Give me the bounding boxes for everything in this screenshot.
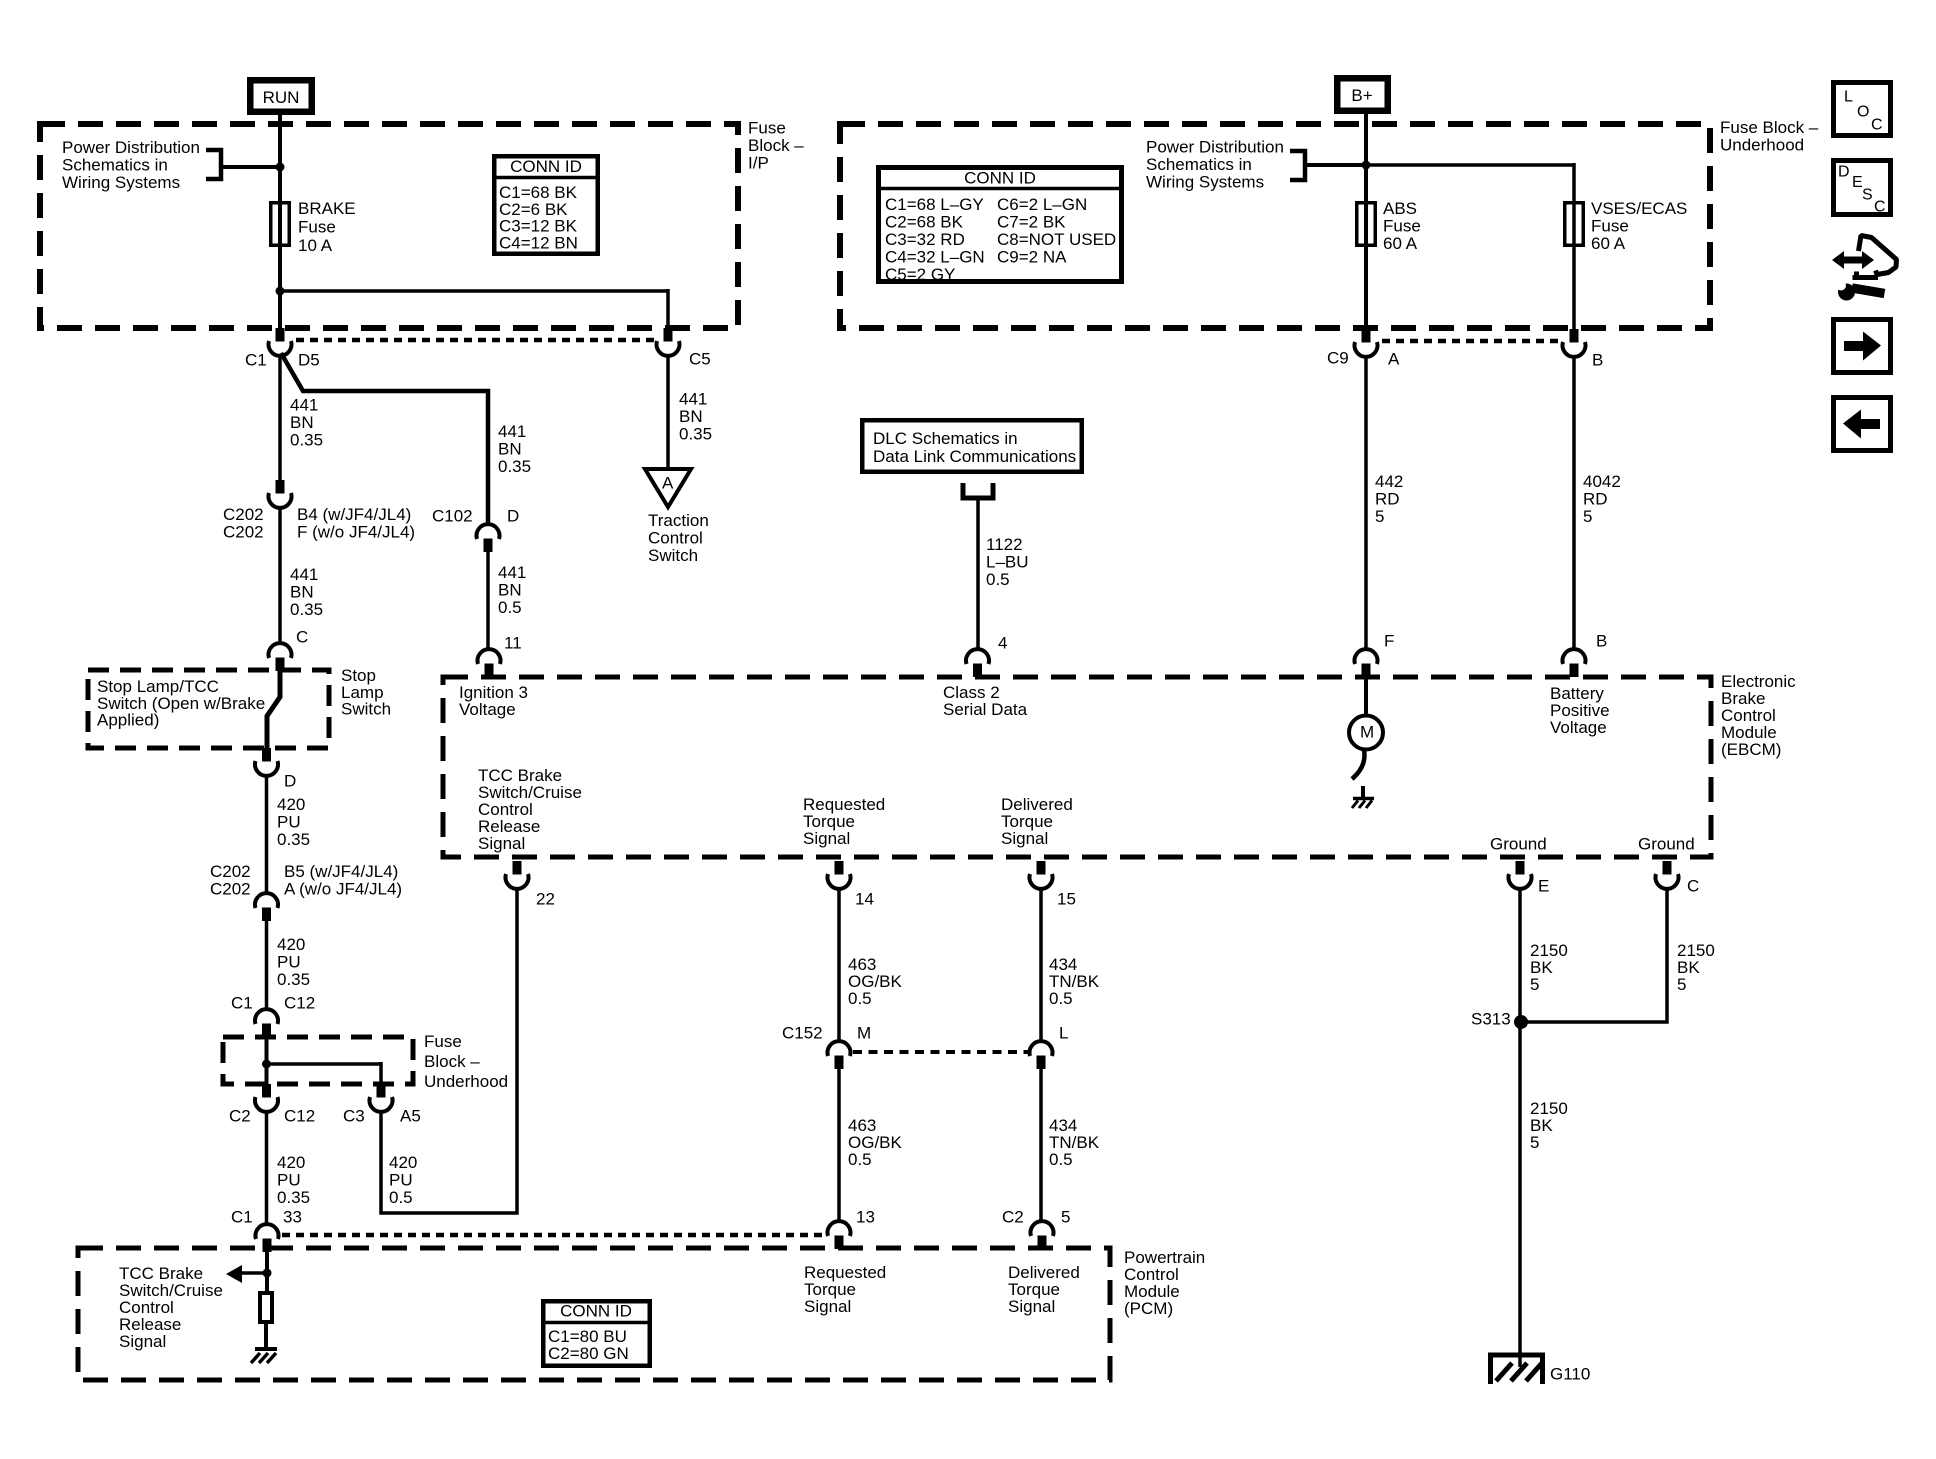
wire D to C202 lower	[265, 775, 269, 893]
svg-text:C7=2 BK: C7=2 BK	[997, 213, 1066, 232]
svg-text:RD: RD	[1583, 490, 1608, 509]
connector C152 M	[835, 1056, 844, 1070]
connector C9 A	[1362, 329, 1371, 343]
svg-text:420: 420	[277, 1153, 305, 1172]
svg-text:CONN ID: CONN ID	[560, 1302, 632, 1321]
icon DESC box	[1834, 161, 1891, 215]
svg-text:441: 441	[498, 563, 526, 582]
connector C202 lower	[262, 908, 271, 922]
power node RUN box	[250, 80, 312, 112]
node junction at B+ feed	[1362, 161, 1371, 170]
svg-text:Ground: Ground	[1638, 835, 1695, 854]
svg-text:0.5: 0.5	[498, 598, 522, 617]
svg-text:D5: D5	[298, 351, 320, 370]
wire C202 lower to C1-C12	[265, 921, 269, 1010]
conn id table (PCM)	[543, 1301, 650, 1366]
wire C to S313 junction	[1520, 888, 1667, 1022]
dashed connector line M to L	[853, 1050, 1028, 1054]
svg-text:33: 33	[283, 1208, 302, 1227]
svg-text:C: C	[296, 628, 308, 647]
svg-text:C9: C9	[1327, 349, 1349, 368]
svg-text:0.35: 0.35	[290, 600, 323, 619]
svg-text:O: O	[1857, 104, 1869, 121]
wire DLC to pin 4	[976, 498, 980, 650]
wire C2-C12 to C1-33	[265, 1111, 269, 1224]
svg-text:442: 442	[1375, 472, 1403, 491]
svg-text:441: 441	[498, 422, 526, 441]
svg-text:C: C	[1874, 199, 1886, 216]
svg-text:PU: PU	[277, 953, 301, 972]
svg-text:0.35: 0.35	[679, 425, 712, 444]
svg-text:A: A	[1388, 350, 1400, 369]
svg-text:441: 441	[290, 396, 318, 415]
connector pin B (EBCM)	[1570, 664, 1579, 678]
connector pin 4	[973, 664, 982, 678]
svg-text:PU: PU	[389, 1171, 413, 1190]
svg-text:C1: C1	[245, 351, 267, 370]
svg-text:RUN: RUN	[263, 88, 300, 107]
svg-text:S313: S313	[1471, 1010, 1511, 1029]
connector C1 33	[263, 1239, 272, 1253]
pump motor switch blade	[1352, 750, 1365, 779]
svg-text:Data Link Communications: Data Link Communications	[873, 447, 1076, 466]
icon back arrow box	[1834, 398, 1891, 451]
connector pin 14	[835, 861, 844, 875]
svg-text:5: 5	[1583, 507, 1592, 526]
connector C2 pin 5	[1038, 1236, 1047, 1250]
svg-text:C202: C202	[210, 862, 251, 881]
svg-text:C4=32 L–GN: C4=32 L–GN	[885, 248, 985, 267]
icon forward arrow box	[1834, 320, 1891, 373]
svg-text:420: 420	[277, 935, 305, 954]
connector pin E	[1516, 861, 1525, 875]
connector C1 D5	[276, 328, 285, 342]
fuse block underhood dashed box	[840, 124, 1710, 328]
node junction at RUN feed	[276, 163, 285, 172]
icon transfer case with wrench	[1832, 251, 1874, 269]
connector C202 upper	[276, 480, 285, 494]
svg-text:Schematics in: Schematics in	[62, 156, 168, 175]
svg-text:ABS: ABS	[1383, 199, 1417, 218]
resistor in PCM	[260, 1293, 272, 1322]
dotted connector line C1 to C5	[296, 338, 654, 343]
arrow wire to TCC label	[240, 1271, 267, 1275]
svg-text:F (w/o JF4/JL4): F (w/o JF4/JL4)	[297, 523, 415, 542]
connector pin F	[1362, 664, 1371, 678]
svg-text:C4=12 BN: C4=12 BN	[499, 233, 578, 252]
svg-text:Voltage: Voltage	[1550, 718, 1607, 737]
wire B+ down through ABS fuse	[1364, 111, 1368, 329]
svg-text:PU: PU	[277, 1171, 301, 1190]
fuse block underhood small dashed box	[223, 1037, 413, 1084]
svg-text:B: B	[1592, 351, 1603, 370]
svg-text:Signal: Signal	[803, 829, 850, 848]
svg-text:Fuse: Fuse	[1383, 217, 1421, 236]
fuse BRAKE 10A symbol	[271, 203, 290, 246]
connector C102 D	[484, 539, 493, 553]
svg-text:0.5: 0.5	[1049, 989, 1073, 1008]
wire A5 down and over to pin 22	[381, 888, 517, 1213]
svg-text:PU: PU	[277, 813, 301, 832]
svg-text:Signal: Signal	[804, 1297, 851, 1316]
wire E to S313	[1518, 888, 1522, 1367]
svg-text:Fuse: Fuse	[298, 218, 336, 237]
svg-text:4: 4	[998, 634, 1007, 653]
svg-text:Schematics in: Schematics in	[1146, 155, 1252, 174]
ground G110 symbol	[1488, 1353, 1545, 1358]
ground symbol in EBCM	[1353, 797, 1374, 801]
svg-text:0.35: 0.35	[277, 1188, 310, 1207]
svg-text:L–BU: L–BU	[986, 553, 1029, 572]
wire branch D5 to C102 diagonal	[281, 353, 488, 524]
svg-text:5: 5	[1375, 507, 1384, 526]
svg-text:Underhood: Underhood	[424, 1072, 508, 1091]
svg-text:E: E	[1538, 877, 1549, 896]
svg-text:Wiring Systems: Wiring Systems	[62, 173, 180, 192]
svg-text:I/P: I/P	[748, 154, 769, 173]
svg-text:DLC Schematics in: DLC Schematics in	[873, 429, 1018, 448]
svg-text:BN: BN	[498, 440, 522, 459]
wire F to pump motor	[1364, 677, 1368, 717]
svg-text:0.5: 0.5	[389, 1188, 413, 1207]
svg-text:C: C	[1871, 117, 1883, 134]
svg-text:Signal: Signal	[1008, 1297, 1055, 1316]
arrowhead TCC	[226, 1265, 242, 1283]
svg-text:5: 5	[1530, 1133, 1539, 1152]
svg-text:14: 14	[855, 890, 874, 909]
svg-text:G110: G110	[1550, 1365, 1590, 1384]
wire 434 TN/BK lower	[1039, 1069, 1043, 1221]
svg-text:C5: C5	[689, 350, 711, 369]
svg-text:Fuse: Fuse	[424, 1032, 462, 1051]
svg-text:(PCM): (PCM)	[1124, 1299, 1173, 1318]
svg-text:420: 420	[389, 1153, 417, 1172]
wire C102 to pin 11	[486, 552, 490, 650]
svg-text:F: F	[1384, 632, 1394, 651]
svg-text:5: 5	[1677, 975, 1686, 994]
svg-text:0.35: 0.35	[290, 431, 323, 450]
svg-text:B+: B+	[1351, 86, 1372, 105]
wire branch to VSES fuse	[1366, 163, 1574, 167]
svg-text:Signal: Signal	[478, 834, 525, 853]
wire 463 OG/BK lower	[837, 1069, 841, 1221]
svg-text:BN: BN	[290, 583, 314, 602]
svg-text:C3=32 RD: C3=32 RD	[885, 230, 965, 249]
stop lamp switch blade	[267, 671, 280, 750]
svg-text:Power Distribution: Power Distribution	[62, 138, 200, 157]
svg-text:5: 5	[1530, 975, 1539, 994]
connector C1 C12	[262, 1024, 271, 1038]
svg-text:C202: C202	[223, 523, 264, 542]
svg-text:VSES/ECAS: VSES/ECAS	[1591, 199, 1687, 218]
svg-text:5: 5	[1061, 1208, 1070, 1227]
svg-text:S: S	[1862, 187, 1873, 204]
svg-text:Traction: Traction	[648, 511, 709, 530]
connector C152 L	[1037, 1056, 1046, 1070]
bracket below DLC box	[963, 483, 993, 498]
wire 463 OG/BK upper	[837, 888, 841, 1041]
svg-text:B4 (w/JF4/JL4): B4 (w/JF4/JL4)	[297, 505, 411, 524]
svg-text:Power Distribution: Power Distribution	[1146, 138, 1284, 157]
svg-text:C9=2 NA: C9=2 NA	[997, 248, 1067, 267]
svg-text:Fuse: Fuse	[1591, 217, 1629, 236]
wire down to C5 stub	[666, 289, 670, 328]
svg-text:Wiring Systems: Wiring Systems	[1146, 173, 1264, 192]
connector pin 22	[513, 861, 522, 875]
svg-text:B: B	[1596, 632, 1607, 651]
bracket to power distribution (right)	[1290, 151, 1305, 180]
svg-text:BRAKE: BRAKE	[298, 199, 356, 218]
svg-text:L: L	[1059, 1024, 1068, 1043]
svg-text:0.35: 0.35	[498, 457, 531, 476]
svg-text:60 A: 60 A	[1383, 234, 1418, 253]
icon LOC box	[1834, 83, 1891, 136]
svg-text:C2=68 BK: C2=68 BK	[885, 213, 964, 232]
connector D (stop lamp out)	[262, 748, 271, 762]
svg-text:BN: BN	[498, 581, 522, 600]
svg-text:0.35: 0.35	[277, 970, 310, 989]
svg-text:0.5: 0.5	[986, 570, 1010, 589]
svg-text:Applied): Applied)	[97, 711, 159, 730]
conn id table (I/P)	[494, 156, 598, 254]
svg-text:C5=2 GY: C5=2 GY	[885, 265, 955, 284]
wire through small fuse box	[265, 1037, 269, 1084]
svg-text:A5: A5	[400, 1107, 421, 1126]
svg-text:D: D	[284, 772, 296, 791]
svg-text:C1: C1	[231, 1208, 253, 1227]
wire 4042 RD from B to B	[1572, 356, 1576, 650]
connector C (stop lamp switch)	[276, 658, 285, 672]
svg-text:B5 (w/JF4/JL4): B5 (w/JF4/JL4)	[284, 862, 398, 881]
svg-text:0.5: 0.5	[848, 989, 872, 1008]
fuse ABS 60A symbol	[1357, 203, 1376, 246]
svg-text:Voltage: Voltage	[459, 700, 516, 719]
powertrain control module dashed box	[78, 1248, 1110, 1380]
svg-text:RD: RD	[1375, 490, 1400, 509]
node splice S313	[1514, 1015, 1528, 1029]
svg-text:15: 15	[1057, 890, 1076, 909]
svg-text:441: 441	[290, 565, 318, 584]
connector C2 C12	[262, 1084, 271, 1098]
node junction at TCC arrow	[263, 1269, 272, 1278]
svg-text:L: L	[1844, 89, 1853, 106]
svg-text:C2: C2	[1002, 1208, 1024, 1227]
svg-text:CONN ID: CONN ID	[510, 157, 582, 176]
fuse VSES/ECAS 60A symbol	[1565, 203, 1584, 246]
svg-text:M: M	[857, 1024, 871, 1043]
svg-text:C: C	[1687, 877, 1699, 896]
node junction below fuse	[276, 287, 285, 296]
svg-text:(EBCM): (EBCM)	[1721, 740, 1781, 759]
wire C1-33 into PCM	[265, 1252, 269, 1293]
svg-text:Switch: Switch	[648, 546, 698, 565]
bracket to power distribution (left)	[206, 150, 221, 179]
svg-text:BN: BN	[679, 407, 703, 426]
svg-text:Signal: Signal	[1001, 829, 1048, 848]
svg-text:C6=2 L–GN: C6=2 L–GN	[997, 195, 1087, 214]
dotted connector line 33 to 13	[282, 1233, 824, 1238]
svg-text:Fuse Block –: Fuse Block –	[1720, 118, 1819, 137]
conn id table (underhood)	[879, 168, 1122, 282]
wire C202 to stop lamp switch	[278, 507, 282, 644]
wire branch to A5	[267, 1062, 382, 1066]
svg-text:D: D	[507, 507, 519, 526]
svg-text:Fuse: Fuse	[748, 119, 786, 138]
svg-text:60 A: 60 A	[1591, 234, 1626, 253]
pump ground stub	[1361, 786, 1365, 799]
wire branch to C5	[280, 289, 668, 293]
svg-text:1122: 1122	[986, 535, 1023, 554]
svg-text:A: A	[662, 474, 674, 493]
svg-text:C1=68 L–GY: C1=68 L–GY	[885, 195, 984, 214]
svg-text:420: 420	[277, 795, 305, 814]
svg-text:CONN ID: CONN ID	[964, 169, 1036, 188]
wire 441 BN below C1-D5	[278, 355, 282, 480]
svg-text:Ground: Ground	[1490, 835, 1547, 854]
svg-text:0.5: 0.5	[1049, 1150, 1073, 1169]
svg-text:Control: Control	[648, 529, 703, 548]
svg-text:Block –: Block –	[748, 136, 804, 155]
svg-text:C2: C2	[229, 1107, 251, 1126]
svg-text:441: 441	[679, 390, 707, 409]
wire bracket to RUN feed	[221, 165, 278, 169]
svg-text:22: 22	[536, 890, 555, 909]
svg-text:C12: C12	[284, 994, 315, 1013]
svg-text:4042: 4042	[1583, 472, 1621, 491]
pump motor M circle	[1349, 716, 1383, 750]
svg-text:M: M	[1360, 723, 1374, 742]
electronic brake control module dashed box	[443, 677, 1711, 857]
connector C3 A5	[377, 1084, 386, 1098]
connector pin 13	[835, 1236, 844, 1250]
wire bracket to B+ feed	[1305, 163, 1364, 167]
connector C5	[664, 328, 673, 342]
svg-text:C202: C202	[210, 880, 251, 899]
dotted connector line A to B	[1382, 339, 1560, 344]
svg-text:13: 13	[856, 1208, 875, 1227]
svg-text:0.35: 0.35	[277, 830, 310, 849]
wire down through VSES fuse	[1572, 163, 1576, 329]
wire 434 TN/BK upper	[1039, 888, 1043, 1041]
DLC schematics reference box	[862, 420, 1082, 472]
svg-text:C152: C152	[782, 1024, 823, 1043]
wire resistor to ground	[264, 1324, 268, 1350]
svg-text:Signal: Signal	[119, 1332, 166, 1351]
svg-text:11: 11	[504, 634, 522, 653]
connector pin 11	[485, 664, 494, 678]
svg-text:A (w/o JF4/JL4): A (w/o JF4/JL4)	[284, 880, 402, 899]
svg-text:C12: C12	[284, 1107, 315, 1126]
connector pin 15	[1037, 861, 1046, 875]
stop lamp switch dashed box	[88, 670, 329, 748]
ground symbol in PCM	[255, 1347, 277, 1351]
fuse block I/P dashed box	[40, 124, 738, 328]
svg-text:BN: BN	[290, 413, 314, 432]
svg-text:0.5: 0.5	[848, 1150, 872, 1169]
wire C5 down to traction switch	[666, 355, 670, 471]
svg-text:C2=80 GN: C2=80 GN	[548, 1344, 629, 1363]
power node B+ box	[1337, 78, 1388, 111]
off-page connector A triangle (traction control)	[645, 469, 691, 507]
wire 442 RD from A to F	[1364, 356, 1368, 650]
wire RUN down through fuse	[278, 112, 282, 328]
svg-text:Block –: Block –	[424, 1052, 480, 1071]
svg-text:Serial Data: Serial Data	[943, 700, 1028, 719]
svg-text:10 A: 10 A	[298, 236, 333, 255]
svg-text:C1: C1	[231, 994, 253, 1013]
connector B (underhood)	[1570, 329, 1579, 343]
svg-text:C8=NOT USED: C8=NOT USED	[997, 230, 1116, 249]
svg-text:Switch: Switch	[341, 700, 391, 719]
svg-text:C102: C102	[432, 507, 473, 526]
svg-text:Underhood: Underhood	[1720, 136, 1804, 155]
connector pin C (EBCM ground)	[1663, 861, 1672, 875]
svg-text:C202: C202	[223, 505, 264, 524]
svg-text:C3: C3	[343, 1107, 365, 1126]
svg-text:D: D	[1838, 164, 1850, 181]
node junction in small fuse box	[262, 1060, 271, 1069]
